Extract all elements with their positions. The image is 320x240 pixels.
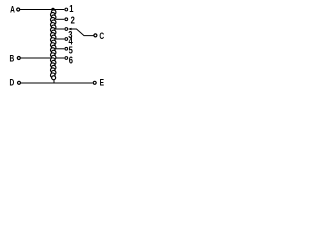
svg-text:A: A xyxy=(10,5,15,15)
svg-text:B: B xyxy=(10,53,15,63)
svg-text:2: 2 xyxy=(71,14,75,25)
svg-text:6: 6 xyxy=(69,54,73,65)
svg-text:E: E xyxy=(100,77,105,87)
svg-text:D: D xyxy=(10,77,15,87)
svg-text:1: 1 xyxy=(69,3,73,14)
svg-text:C: C xyxy=(99,31,104,41)
